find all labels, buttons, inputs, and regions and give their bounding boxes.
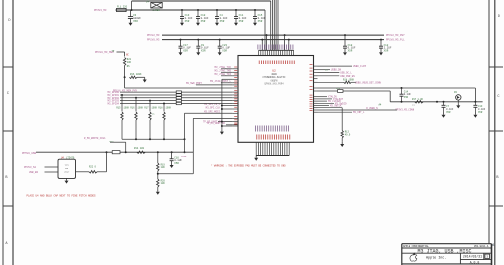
wire right pin M3_CLK32K [318, 100, 328, 102]
svg-text:2014/03/31: 2014/03/31 [463, 255, 482, 259]
pin net mark bottom 13 [281, 126, 283, 132]
wire U2 top pin stub 11 [280, 50, 282, 55]
wire U2 right pin stub 7 [314, 87, 318, 89]
pin number top 14 [287, 61, 289, 65]
pin number bottom 4 [262, 135, 264, 140]
pin net mark bottom 5 [263, 126, 265, 132]
wire into U2 pin SPI_MOSI [185, 112, 233, 114]
capacitor C7 right rail [442, 102, 454, 114]
resistor R20 [157, 179, 159, 187]
wire stub TP_M3_UART_RX [226, 124, 232, 126]
wire U4 output riser [106, 152, 108, 172]
svg-text:M3_SPI_MOSI: M3_SPI_MOSI [204, 110, 220, 113]
wire into left pin M3_JTAG_TCK [221, 68, 232, 70]
wire U2 bottom pin stub 6 [266, 142, 268, 155]
pin number left 16 [234, 116, 237, 118]
series resistor pack element on M3_GPIO1 [176, 94, 181, 96]
pin net name mark top 11 [279, 45, 281, 50]
pin number top 10 [278, 61, 280, 65]
wire U2 bottom pin stub 2 [257, 142, 259, 155]
junction gather [163, 138, 165, 140]
svg-text:X5R: X5R [174, 162, 179, 165]
wire right pin USB_OC_L [318, 72, 340, 74]
svg-text:R15: R15 [116, 107, 121, 110]
junction gather [149, 138, 151, 140]
pin net mark bottom 11 [277, 126, 279, 132]
wire U2 right pin stub 8 [314, 90, 318, 92]
pin number right 1 [310, 64, 313, 66]
svg-text:X5R: X5R [239, 20, 244, 23]
svg-text:D: D [8, 19, 10, 23]
junction rail C drop left [266, 34, 268, 36]
pin net mark bottom 3 [259, 126, 261, 132]
svg-text:X5R: X5R [222, 49, 227, 52]
junction rail D at C12 [380, 39, 382, 41]
wire riser 2 bottom leg [158, 173, 194, 175]
svg-text:R17: R17 [144, 107, 149, 110]
inductor L4 [146, 0, 162, 11]
svg-text:APPLE CONFIDENTIAL: APPLE CONFIDENTIAL [403, 245, 429, 248]
wire U2 bottom pin stub 15 [286, 142, 288, 155]
wire U2 bottom pin stub 3 [260, 142, 262, 155]
wire U2 top pin stub 17 [293, 50, 295, 55]
wire U2 left pin stub 9 [232, 94, 238, 96]
wire U2 left pin stub 2 [232, 71, 238, 73]
wire U2 top pin stub 5 [266, 50, 268, 55]
title block left edge [401, 244, 403, 265]
wire U2 left pin stub 15 [232, 112, 238, 114]
pin number top 16 [291, 61, 293, 65]
pin number top 7 [271, 61, 273, 65]
title block cell divider vertical 1 [459, 253, 461, 264]
wire R21 down to junction [124, 66, 126, 78]
wire power rail B [116, 9, 266, 11]
wire U2 top pin stub 3 [262, 50, 264, 55]
pin number bottom 15 [287, 135, 289, 140]
wire U2 top pin stub 6 [269, 50, 271, 55]
pin number top 5 [267, 61, 269, 65]
pin number right 7 [310, 85, 313, 87]
svg-text:X5R: X5R [133, 20, 138, 23]
pin net name mark top 17 [292, 45, 294, 50]
resistor R18 [344, 81, 352, 83]
wire PP1V8 feed horizontal [117, 51, 125, 53]
wire PP1V8 corner down [124, 52, 126, 57]
pin net name mark top 6 [268, 45, 270, 50]
svg-text:QFN68_8X8_P0R4: QFN68_8X8_P0R4 [264, 83, 284, 86]
svg-text:100K: 100K [124, 107, 130, 110]
pin number left 15 [234, 111, 237, 113]
junction gather riser [184, 138, 186, 140]
wire riser 2 [192, 118, 194, 173]
svg-text:USB0_VBUS_DET_CONN: USB0_VBUS_DET_CONN [355, 81, 381, 84]
svg-text:VOUT: VOUT [64, 171, 70, 174]
wire U2 top pin stub 10 [277, 50, 279, 55]
pin net mark bottom 2 [257, 126, 259, 132]
wire U2 left pin stub 6 [232, 84, 238, 86]
capacitor C10 [196, 10, 209, 26]
wire pulldown drop 1 [121, 95, 123, 112]
pin number bottom 5 [265, 135, 267, 140]
wire right pin XTALOUT [318, 98, 333, 100]
wire right pin USB0_DN [318, 69, 331, 71]
wire divider middle [157, 171, 159, 179]
wire U2 top pin stub 4 [264, 50, 266, 55]
junction rail B at C15 [254, 9, 256, 11]
wire U2 top pin stub 15 [288, 50, 290, 55]
svg-text:D: D [498, 15, 500, 19]
junction rail D at C17 [180, 39, 182, 41]
wire power rail A (PP3V3 top) [132, 0, 271, 2]
pin net mark bottom 8 [270, 126, 272, 132]
svg-text:X5R: X5R [348, 49, 353, 52]
svg-text:X5R: X5R [201, 49, 206, 52]
wire tie branch M3_SPI_CS_L [222, 105, 233, 107]
svg-text:1.0UH: 1.0UH [152, 9, 160, 12]
junction C14 bottom [401, 101, 403, 103]
wire U2 left pin stub 11 [232, 100, 238, 102]
LED D3 [456, 95, 461, 103]
svg-text:PP1V2_M3: PP1V2_M3 [147, 34, 160, 37]
junction bus drop 3 [149, 100, 151, 102]
svg-text:USB_EN: USB_EN [29, 171, 39, 174]
pin number right 16 [310, 110, 313, 112]
pin number left 12 [234, 101, 237, 103]
wire U2 bottom pin stub 9 [273, 142, 275, 155]
op-amp U2 (USB hub controller IC body) [238, 56, 314, 143]
wire U2 right pin stub 12 [314, 102, 318, 104]
pin number top 11 [280, 61, 282, 65]
svg-text:R_M3_BOOT0_CFG1: R_M3_BOOT0_CFG1 [84, 137, 106, 140]
wire U2 left pin stub 19 [232, 125, 238, 127]
svg-text:M3_SPI_CLK: M3_SPI_CLK [206, 106, 221, 109]
pin net name mark top 14 [285, 45, 287, 50]
pin number top 4 [265, 61, 267, 65]
wire BOOT0 horizontal [110, 141, 126, 143]
svg-text:M3_SWCLK: M3_SWCLK [330, 105, 342, 108]
wire right pin USB0_ILIM [318, 65, 353, 67]
series resistor pack element on M3_GPIO3 [176, 99, 181, 101]
pin number bottom 9 [273, 135, 275, 140]
pin net name mark top 16 [290, 45, 292, 50]
resistor R16 body [129, 76, 137, 78]
pin number left 19 [234, 123, 237, 125]
junction rail B at C13 [181, 9, 183, 11]
svg-text:* WARNING : THE EXPOSED PAD MU: * WARNING : THE EXPOSED PAD MUST BE CONN… [211, 165, 286, 168]
pin number left 6 [234, 82, 237, 84]
title block right edge [491, 244, 493, 265]
svg-text:10K: 10K [161, 166, 166, 169]
wire U2 top pin stub 13 [284, 50, 286, 55]
junction rail B at C10 [197, 9, 199, 11]
left zone tick 1 [3, 66, 13, 68]
pin net mark bottom 1 [255, 126, 257, 132]
pin number top 2 [260, 61, 262, 65]
pin net name mark top 2 [259, 45, 261, 50]
wire U2 left pin stub 7 [232, 87, 238, 89]
wire U2 top pin stub 7 [271, 50, 273, 55]
junction rail right 2 [443, 101, 445, 103]
pin number left 7 [234, 85, 237, 87]
wire U2 top pin stub 8 [273, 50, 275, 55]
wire U2 bottom pin stub 14 [284, 142, 286, 155]
wire U2 bottom gather bus [256, 155, 289, 157]
svg-text:M3_JTAG_TRST_L: M3_JTAG_TRST_L [210, 80, 232, 83]
wire rail B drop to U2 top bus [264, 10, 266, 50]
svg-text:PP3V3_S2: PP3V3_S2 [24, 166, 37, 169]
svg-text:M3_INT_L: M3_INT_L [353, 111, 365, 114]
wire U4 VIN [45, 166, 59, 168]
ground C13 [473, 113, 477, 118]
resistor pulldown 1 [121, 112, 123, 120]
svg-text:USB_PWR_EN: USB_PWR_EN [340, 75, 355, 78]
wire supply feed from sheet top x=276.1 [275, 0, 277, 50]
wire R16 to ground [137, 76, 145, 78]
junction C14 top [401, 87, 403, 89]
resistor pulldown 2 [135, 112, 137, 120]
pin number left 10 [234, 95, 237, 97]
wire U2 bottom pin stub 10 [275, 142, 277, 155]
capacitor C17 [179, 40, 192, 56]
capacitor C18 [343, 40, 356, 56]
svg-text:C: C [7, 92, 9, 96]
series resistor pack element on M3_GPIO4 [176, 102, 181, 104]
svg-text:X5R: X5R [201, 20, 206, 23]
wire U2 top pin stub 9 [275, 50, 277, 55]
wire rail C left drop [266, 35, 268, 50]
wire U2 right pin stub 3 [314, 72, 318, 74]
junction rail C drop right [284, 34, 286, 36]
capacitor C13 right rail [473, 102, 485, 114]
wire U2 right pin stub 6 [314, 81, 318, 83]
wire M3_SWD_PORT into U2 [196, 84, 232, 86]
wire U2 left pin stub 17 [232, 121, 238, 123]
pin number right 6 [310, 80, 313, 82]
wire tie branch M3_SPI_CLK [222, 108, 233, 110]
pin net mark bottom 10 [274, 126, 276, 132]
resistor R17 [415, 101, 423, 103]
svg-text:X5R: X5R [185, 20, 190, 23]
ground divider [156, 190, 160, 195]
wire pin tie vertical [221, 79, 223, 129]
wire U2 left pin stub 16 [232, 117, 238, 119]
pin net name mark top 8 [272, 45, 274, 50]
svg-text:C: C [497, 95, 499, 99]
wire right pin USB_PWR_EN [318, 75, 340, 77]
pin number left 2 [234, 70, 237, 72]
pin number right 9 [310, 94, 313, 96]
ferrite bead FL3 on VDD33 wire [338, 90, 344, 93]
wire U2 left pin stub 10 [232, 97, 238, 99]
junction rail D at C23 [219, 39, 221, 41]
pin number bottom 7 [269, 135, 271, 140]
svg-text:PP3V3_M3: PP3V3_M3 [94, 9, 107, 12]
pin number left 11 [234, 98, 237, 100]
pin net name mark top 15 [288, 45, 290, 50]
wire U2 bottom pin stub 8 [271, 142, 273, 155]
left zone tick 2 [3, 130, 13, 132]
wire U2 right pin stub 4 [314, 75, 318, 77]
capacitor C23 [218, 40, 231, 56]
svg-text:PP5V0_USB: PP5V0_USB [22, 152, 36, 155]
wire VDD33 run [318, 90, 391, 92]
wire U2 right pin stub 11 [314, 100, 318, 102]
pin net name mark top 4 [263, 45, 265, 50]
wire into left pin M3_JTAG_TMS [221, 71, 232, 73]
wire U2 right pin stub 9 [314, 96, 318, 98]
wire power rail D (PP1V0) [162, 39, 384, 41]
wire tie into U2 pin [222, 125, 233, 127]
wire U2 top pin stub 12 [282, 50, 284, 55]
wire U2 left pin stub 12 [232, 103, 238, 105]
pin number right 5 [310, 76, 313, 78]
wire BOOT0 corner down [125, 142, 127, 152]
wire U2 bottom pin stub 16 [288, 142, 290, 155]
pin number bottom 16 [289, 135, 291, 140]
wire VBUS sense [318, 81, 344, 83]
wire U2 left pin stub 18 [232, 124, 238, 126]
pin net mark bottom 7 [268, 126, 270, 132]
wire divider lower [157, 187, 159, 190]
svg-text:USB0_ILIM: USB0_ILIM [353, 65, 366, 68]
capacitor C11 [234, 10, 247, 26]
pin number bottom 11 [278, 135, 280, 140]
junction U4 output tie [106, 151, 108, 153]
resistor R13 [341, 131, 343, 138]
capacitor C13 [180, 10, 193, 26]
pin number left 13 [234, 103, 237, 105]
pin net mark bottom 9 [272, 126, 274, 132]
pin net mark bottom 6 [266, 126, 268, 132]
wire U2 left pin stub 1 [232, 68, 238, 70]
pin number left 8 [234, 89, 237, 91]
pin number left 4 [234, 77, 237, 79]
pin number right 10 [310, 96, 313, 98]
resistor R21 body [123, 58, 125, 66]
svg-text:R_USB0_N: R_USB0_N [366, 107, 378, 110]
svg-text:X5R: X5R [478, 111, 483, 114]
junction gather [135, 138, 137, 140]
voltage regulator U4 [58, 159, 76, 178]
capacitor C16 [170, 152, 183, 168]
wire rail C right drop [284, 35, 286, 50]
wire rail D right drop [288, 40, 290, 51]
wire U2 bottom pin stub 5 [264, 142, 266, 155]
pin number top 3 [263, 61, 265, 65]
svg-text:100K: 100K [166, 107, 172, 110]
ground D3 [456, 103, 460, 108]
svg-text:X5R: X5R [446, 111, 451, 114]
wire U2 top pin stub 2 [260, 50, 262, 55]
junction tie 1 [221, 105, 223, 107]
svg-text:TP_M3_UART_TX: TP_M3_UART_TX [203, 121, 222, 124]
junction tie 4 [221, 125, 223, 127]
pin number top 6 [269, 61, 271, 65]
svg-text:X5R: X5R [258, 20, 263, 23]
capacitor C6 [128, 10, 141, 26]
wire U2 bottom pin stub 7 [268, 142, 270, 155]
junction divider top [157, 151, 159, 153]
sheet border left inner line [12, 0, 14, 265]
wire U4 VOUT [76, 171, 90, 173]
pin number top 15 [289, 61, 291, 65]
resistor R19 [157, 163, 159, 171]
svg-text:FL3: FL3 [336, 87, 341, 90]
wire bus line M3_GPIO1 [120, 94, 232, 96]
svg-text:X5R: X5R [384, 49, 389, 52]
wire VDD33 corner down [389, 91, 391, 102]
series resistor pack element on M3_GPIO0 [176, 91, 181, 93]
wire pulldown gather horizontal [122, 138, 185, 140]
wire R13 to ground [341, 138, 343, 142]
wire U2 bottom pin stub 4 [262, 142, 264, 155]
wire bus line M3_GPIO2 [120, 97, 232, 99]
junction rail D drop right [288, 39, 290, 41]
wire U2 right pin stub 10 [314, 98, 318, 100]
junction tie 3 [221, 121, 223, 123]
pin number bottom 3 [260, 135, 262, 140]
svg-text:PP1V2_M3_PHY: PP1V2_M3_PHY [386, 34, 405, 37]
wire pulldown 3 to gather [149, 120, 151, 139]
sheet border left outer line [2, 0, 4, 265]
ground C7 [442, 113, 446, 118]
capacitor C12 [379, 40, 392, 56]
junction bus drop 4 [163, 103, 165, 105]
svg-text:LT3470: LT3470 [66, 157, 75, 160]
wire pulldown drop 4 [163, 104, 165, 112]
ground R16 [143, 77, 147, 82]
title block row3 divider [460, 259, 491, 261]
title block row2 divider [402, 252, 492, 254]
pin net name mark top 13 [283, 45, 285, 50]
pin number right 3 [310, 70, 313, 72]
wire down to PP1V8 rail wire [124, 77, 126, 88]
wire supply feed from sheet top x=272.5 [272, 0, 274, 50]
svg-text:10K: 10K [161, 182, 166, 185]
junction rail right 3 [474, 101, 476, 103]
capacitor C15 [253, 10, 266, 26]
wire U2 right pin stub 5 [314, 78, 318, 80]
svg-text:R16: R16 [130, 107, 135, 110]
pin number top 9 [276, 61, 278, 65]
junction C16 tap [171, 151, 173, 153]
resistor R14 [137, 151, 145, 153]
ferrite bead FL1 [117, 6, 128, 12]
pin number right 2 [310, 67, 313, 69]
pin number bottom 13 [282, 135, 284, 140]
wire right pin XTALIN [318, 96, 328, 98]
ferrite bead FL2 [112, 151, 120, 154]
wire U4 EN [45, 171, 59, 173]
ground U2 exposed pad [254, 156, 258, 161]
wire U2 right pin stub 1 [314, 65, 318, 67]
wire U2 left pin stub 4 [232, 78, 238, 80]
wire TP_M3_UART_TX into U2 [218, 121, 232, 123]
pin net mark bottom 14 [283, 126, 285, 132]
junction rail C at C18 [344, 34, 346, 36]
wire U2 left pin stub 13 [232, 105, 238, 107]
pin number bottom 12 [280, 135, 282, 140]
pin number bottom 8 [271, 135, 273, 140]
svg-text:PP3V3_M3_CONN: PP3V3_M3_CONN [396, 108, 415, 111]
pin number left 14 [234, 106, 237, 108]
ground U4 [65, 178, 69, 183]
pin net name mark top 12 [281, 45, 283, 50]
svg-text:FL1 220: FL1 220 [117, 6, 128, 9]
wire right pin M3_SWCLK [318, 105, 330, 107]
junction rail D at C9 [197, 39, 199, 41]
resistor pulldown 4 [163, 112, 165, 120]
